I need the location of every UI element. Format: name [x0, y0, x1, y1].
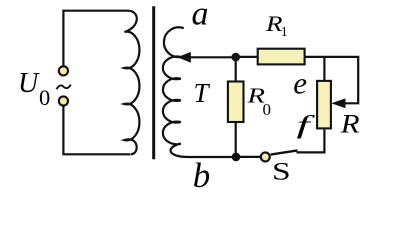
- terminal (source bottom): [59, 96, 68, 105]
- wire: tap line from top node to secondary: [189, 56, 236, 58]
- svg-text:b: b: [193, 156, 211, 192]
- resistor R0: [228, 82, 244, 123]
- resistor R (rheostat body): [317, 81, 331, 128]
- svg-text:f: f: [297, 110, 317, 139]
- transformer secondary winding (top hook to terminal a): [164, 27, 184, 57]
- terminal (source top): [59, 66, 68, 75]
- switch S blade: [271, 150, 298, 154]
- wire: top rail from R1 to right corner: [305, 57, 359, 103]
- wire: left loop bottom (from source bottom terminal down and right to primary coil): [63, 106, 130, 154]
- svg-text:e: e: [293, 66, 307, 101]
- tap arrow head pointing into secondary winding: [178, 52, 191, 63]
- wire: bottom rail from node to switch: [236, 156, 261, 158]
- switch S pivot terminal: [261, 152, 270, 161]
- transformer core: [152, 6, 155, 159]
- svg-text:R: R: [340, 110, 360, 139]
- transformer primary winding: [124, 11, 139, 155]
- wire: branch down from top rail to R: [323, 57, 325, 82]
- wire: bottom rail right of switch: [297, 151, 325, 154]
- transformer secondary winding turns: [163, 57, 181, 145]
- wire: left loop top (from source top terminal up and right to primary coil): [63, 11, 129, 66]
- wire: from R0 bottom to bottom node: [235, 122, 237, 157]
- svg-text:0: 0: [263, 100, 272, 119]
- node (bottom junction dot): [232, 153, 241, 162]
- resistor R1: [258, 49, 305, 65]
- wiper arrow head pointing into R: [331, 98, 345, 108]
- svg-text:a: a: [192, 0, 209, 33]
- svg-text:1: 1: [281, 25, 288, 40]
- svg-text:U: U: [18, 68, 40, 99]
- svg-text:T: T: [194, 78, 211, 108]
- wire: from R bottom down to bottom rail: [323, 128, 325, 153]
- svg-text:S: S: [272, 157, 291, 186]
- AC tilde symbol: [57, 85, 71, 90]
- wire: branch from top node down to R0: [235, 57, 237, 82]
- svg-text:0: 0: [39, 85, 50, 110]
- wire: top rail from node to R1: [236, 56, 259, 58]
- node (top junction dot): [231, 53, 240, 62]
- wire: secondary bottom exit to bottom rail: [171, 143, 232, 157]
